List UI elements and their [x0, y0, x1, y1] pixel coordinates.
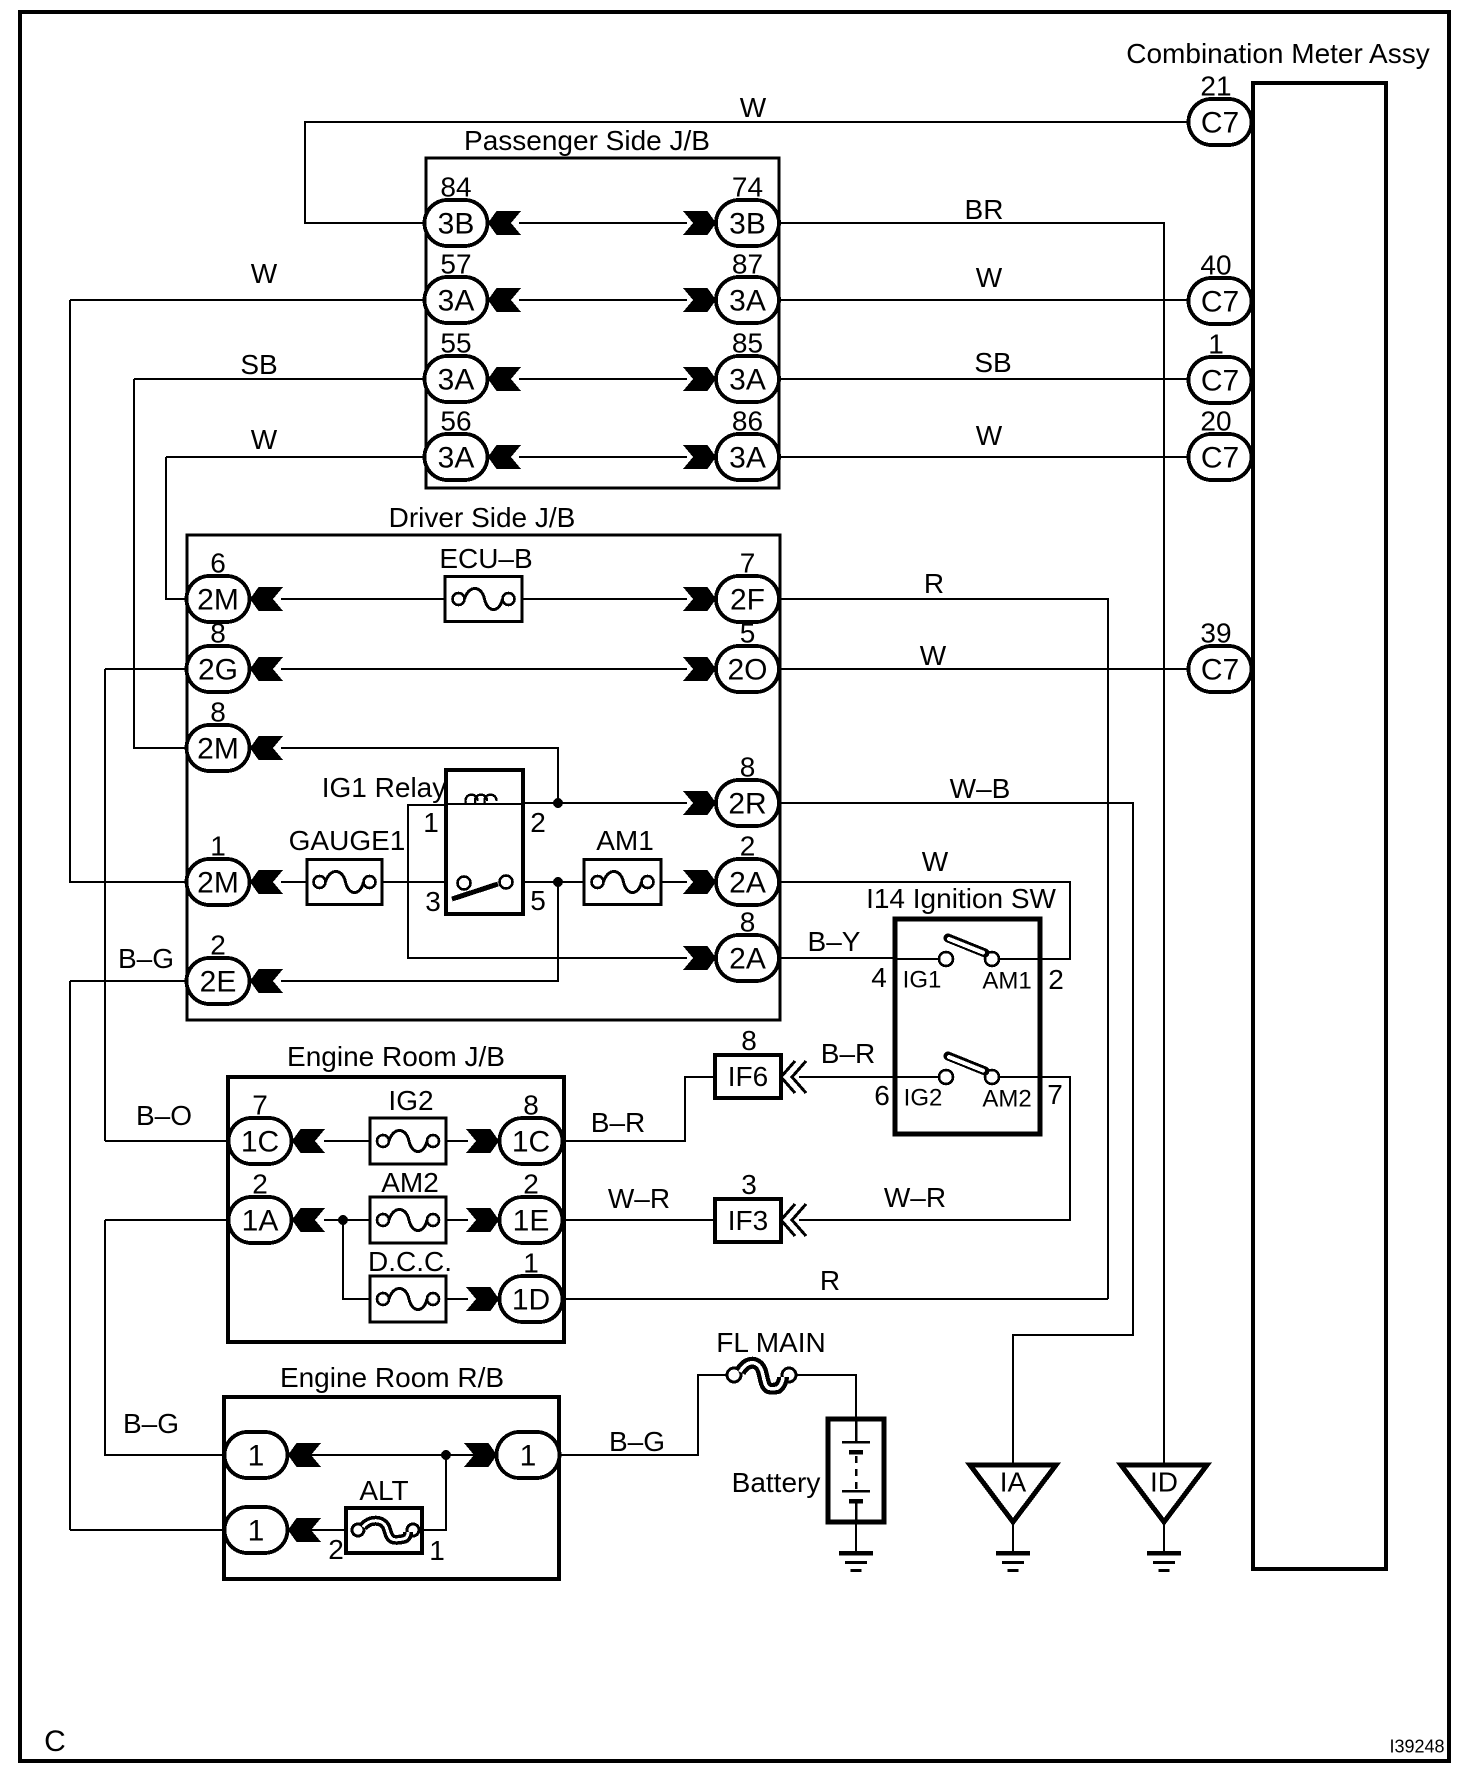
svg-text:B–R: B–R [591, 1107, 645, 1138]
fuse AM2 [370, 1197, 446, 1243]
svg-text:8: 8 [210, 697, 226, 728]
svg-text:C7: C7 [1201, 107, 1239, 140]
svg-text:87: 87 [732, 249, 763, 280]
wire D.C.C. fuse to 1D [446, 1298, 468, 1300]
svg-text:1C: 1C [512, 1126, 550, 1159]
ignition IG2 contact [939, 1070, 953, 1084]
wire B-G vertical 1A to Engine Room R/B [105, 1220, 225, 1455]
svg-text:2: 2 [1048, 964, 1064, 995]
wire ignition pin 6 to IG2 contact [895, 1076, 939, 1078]
svg-text:W–R: W–R [884, 1182, 946, 1213]
combination meter assy box [1253, 83, 1386, 1569]
svg-text:56: 56 [440, 406, 471, 437]
svg-text:7: 7 [740, 548, 756, 579]
svg-text:2: 2 [252, 1169, 268, 1200]
svg-text:IG1 Relay: IG1 Relay [322, 772, 447, 803]
wire W left segment to 3A pin 57 [70, 299, 425, 301]
wire W from C7 pin 21 to 3B pin 84 [305, 122, 1189, 223]
fuse ECU-B [445, 577, 522, 622]
svg-text:IG1: IG1 [903, 967, 942, 994]
wire B-G into 1A pin 2 [105, 1219, 230, 1221]
svg-text:C7: C7 [1201, 442, 1239, 475]
wire R from 2F to 1D [778, 599, 1108, 1299]
svg-text:W–R: W–R [608, 1183, 670, 1214]
wire B-O vertical 2G to 1C [104, 669, 106, 1141]
svg-text:C: C [44, 1725, 66, 1758]
connector C7 pin 40 [1189, 278, 1252, 324]
connector 2A pin 2 [716, 859, 779, 905]
connector 3A pin 86 [716, 434, 779, 480]
wire J/B internal row 55-85 [519, 378, 687, 380]
arrow into 2G pin 8 [250, 657, 283, 681]
svg-text:AM1: AM1 [982, 968, 1031, 995]
fuse GAUGE1 [307, 860, 382, 905]
svg-text:1D: 1D [512, 1284, 550, 1317]
wire W from 3A pin 86 to C7 pin 20 [778, 456, 1189, 458]
connector 1 lower [225, 1507, 288, 1553]
svg-text:20: 20 [1200, 406, 1231, 437]
svg-text:86: 86 [732, 406, 763, 437]
wire 2E to relay pin 5 node [281, 882, 558, 981]
wire 2M pin 8 to IG1 relay pin 2 node [281, 748, 558, 803]
wire J/B internal row 84-74 [519, 222, 687, 224]
arrow into 2R pin 8 [683, 791, 716, 815]
svg-text:R: R [924, 568, 944, 599]
svg-text:7: 7 [1047, 1079, 1063, 1110]
wire AM1 contact to ignition pin 2 [999, 958, 1040, 960]
svg-text:1: 1 [1208, 329, 1224, 360]
arrow into 2M pin 1 [250, 870, 283, 894]
relay IG1 contact 5 [500, 876, 513, 889]
ignition IG1 contact [939, 952, 953, 966]
svg-text:3: 3 [425, 886, 441, 917]
wire relay pin 5 to AM1 fuse [522, 881, 584, 883]
wire B-G vertical 2E to lower connector 1 [69, 981, 71, 1530]
arrow into 3B pin 84 [488, 211, 521, 235]
svg-text:1: 1 [520, 1440, 537, 1473]
svg-text:W: W [922, 846, 949, 877]
wire AM2 contact to ignition pin 7 [999, 1076, 1040, 1078]
connector 3A pin 87 [716, 277, 779, 323]
wire B-O into 1C pin 7 [105, 1140, 230, 1142]
wire B-G stub into 2E [70, 980, 187, 982]
svg-text:2: 2 [328, 1534, 344, 1565]
wire 1A to AM2 fuse [324, 1219, 370, 1221]
connector 3B pin 84 [425, 200, 488, 246]
wire W from 3A pin 87 to C7 pin 40 [778, 299, 1189, 301]
I14 Ignition SW box [895, 919, 1040, 1134]
svg-text:Combination Meter Assy: Combination Meter Assy [1126, 38, 1429, 69]
wire ECU-B fuse to 2F [522, 598, 687, 600]
connector IF3 chevrons [781, 1204, 806, 1236]
svg-text:1: 1 [523, 1248, 539, 1279]
connector 2R pin 8 [716, 780, 779, 826]
svg-text:1E: 1E [513, 1205, 550, 1238]
svg-text:3A: 3A [729, 364, 766, 397]
svg-text:2: 2 [530, 807, 546, 838]
svg-text:1: 1 [210, 831, 226, 862]
arrow into 2E pin 2 [250, 969, 283, 993]
svg-text:7: 7 [252, 1090, 268, 1121]
svg-text:6: 6 [874, 1080, 890, 1111]
svg-text:B–O: B–O [136, 1100, 192, 1131]
relay IG1 box [446, 770, 523, 914]
relay IG1 coil [446, 795, 522, 804]
svg-text:3B: 3B [438, 208, 475, 241]
ignition AM1 contact [985, 952, 999, 966]
svg-text:Driver Side J/B: Driver Side J/B [389, 502, 576, 533]
wire 2M6 to ECU-B fuse [281, 598, 445, 600]
wire AM2 fuse to 1E [446, 1219, 468, 1221]
wire 2G to 2O internal [281, 668, 687, 670]
relay IG1 contact 3 [458, 877, 471, 890]
svg-text:C7: C7 [1201, 365, 1239, 398]
connector 1 upper [225, 1432, 288, 1478]
arrow into 3A pin 86 [683, 445, 716, 469]
svg-text:W: W [740, 92, 767, 123]
wire W left segment to 3A pin 56 [166, 456, 425, 458]
svg-text:55: 55 [440, 328, 471, 359]
svg-text:8: 8 [740, 752, 756, 783]
svg-text:B–G: B–G [123, 1408, 179, 1439]
ignition IG2-AM2 lever [948, 1056, 985, 1071]
arrow into 2A pin 8 [683, 946, 716, 970]
wire W down to 2M pin 6 [166, 457, 187, 599]
svg-text:ECU–B: ECU–B [439, 543, 532, 574]
svg-text:B–Y: B–Y [808, 926, 861, 957]
svg-text:B–G: B–G [118, 943, 174, 974]
connector 2G pin 8 [187, 646, 250, 692]
wire IA to ground [1012, 1522, 1014, 1551]
arrow into 3A pin 85 [683, 367, 716, 391]
wire IG2 fuse to 1C [446, 1140, 468, 1142]
svg-text:2F: 2F [730, 584, 765, 617]
svg-text:W: W [976, 420, 1003, 451]
arrow into 3A pin 57 [488, 288, 521, 312]
svg-text:1: 1 [423, 807, 439, 838]
wire R from 1D to 2F riser [562, 1298, 1108, 1300]
connector 1D pin 1 [500, 1276, 563, 1322]
svg-text:FL MAIN: FL MAIN [716, 1327, 825, 1358]
wire FL MAIN to battery positive [796, 1375, 856, 1420]
svg-text:85: 85 [732, 328, 763, 359]
wire B-R from 1C pin 8 to IF6 [562, 1077, 715, 1141]
svg-text:IG2: IG2 [388, 1085, 433, 1116]
svg-text:AM2: AM2 [381, 1167, 439, 1198]
svg-text:IA: IA [1000, 1467, 1027, 1498]
connector 3A pin 55 [425, 356, 488, 402]
svg-text:8: 8 [740, 907, 756, 938]
connector 3A pin 57 [425, 277, 488, 323]
svg-text:3: 3 [741, 1169, 757, 1200]
Driver Side J/B box [187, 535, 780, 1020]
battery [828, 1419, 884, 1522]
svg-text:B–G: B–G [609, 1426, 665, 1457]
arrow into 1C pin 8 [466, 1129, 499, 1153]
connector 1C pin 7 [229, 1118, 292, 1164]
svg-text:5: 5 [740, 618, 756, 649]
arrow into 3A pin 87 [683, 288, 716, 312]
svg-text:2A: 2A [729, 867, 766, 900]
svg-text:Engine Room J/B: Engine Room J/B [287, 1041, 505, 1072]
svg-text:D.C.C.: D.C.C. [368, 1246, 452, 1277]
fuse D.C.C. [370, 1276, 446, 1322]
junction relay pin 5 node [553, 877, 563, 887]
connector 1A pin 2 [229, 1197, 292, 1243]
wire AM1 fuse to 2A [661, 881, 687, 883]
wire battery negative to ground [855, 1522, 857, 1551]
wire B-G into lower connector 1 [70, 1529, 225, 1531]
wire 2M1 to GAUGE1 [281, 881, 307, 883]
wire B-R from IF6 to ignition IG2 pin 6 [799, 1076, 895, 1078]
svg-text:2O: 2O [727, 654, 767, 687]
fusible link ALT box [346, 1508, 422, 1553]
svg-text:C7: C7 [1201, 286, 1239, 319]
connector 2F pin 7 [716, 576, 779, 622]
svg-text:Passenger Side J/B: Passenger Side J/B [464, 125, 710, 156]
wire 1C to IG2 fuse [324, 1140, 370, 1142]
svg-text:GAUGE1: GAUGE1 [289, 825, 406, 856]
wire BR from 3B pin 74 down to ID ground [778, 223, 1164, 1465]
junction AM2/DCC node [338, 1215, 348, 1225]
svg-text:21: 21 [1200, 71, 1231, 102]
junction ALT node [441, 1450, 451, 1460]
wire IG1 relay pin 1 to 2A pin 8 [408, 805, 687, 958]
svg-text:84: 84 [440, 172, 471, 203]
svg-text:W: W [251, 258, 278, 289]
svg-text:74: 74 [732, 172, 763, 203]
relay IG1 switch blade [452, 884, 498, 899]
svg-text:2G: 2G [198, 654, 238, 687]
svg-text:W: W [251, 424, 278, 455]
connector 2E pin 2 [187, 958, 250, 1004]
connector 1C pin 8 [500, 1118, 563, 1164]
junction relay pin 2 node [553, 798, 563, 808]
connector 3B pin 74 [716, 200, 779, 246]
connector C7 pin 1 [1189, 357, 1252, 403]
connector IF6 chevrons [781, 1061, 806, 1093]
arrow into 2F pin 7 [683, 587, 716, 611]
wire W from 2O to C7 pin 39 [778, 668, 1189, 670]
svg-text:B–R: B–R [821, 1038, 875, 1069]
wire IG1 relay pin 2 to 2R [522, 802, 687, 804]
wire B-Y from 2A pin 8 to ignition IG1 pin 4 [778, 957, 895, 959]
svg-text:3A: 3A [729, 442, 766, 475]
fusible link ALT [352, 1521, 419, 1540]
Engine Room J/B box [228, 1077, 564, 1342]
arrow into 1E pin 2 [466, 1208, 499, 1232]
arrow into 3B pin 74 [683, 211, 716, 235]
arrow into left connector 1 [288, 1443, 321, 1467]
svg-text:3A: 3A [729, 285, 766, 318]
connector 2O pin 5 [716, 646, 779, 692]
svg-text:Battery: Battery [732, 1467, 821, 1498]
ignition AM2 contact [985, 1070, 999, 1084]
svg-text:1C: 1C [241, 1126, 279, 1159]
arrow into 1D pin 1 [466, 1287, 499, 1311]
arrow into 2A pin 2 [683, 870, 716, 894]
wire J/B internal row 56-86 [519, 456, 687, 458]
ground point ID [1121, 1465, 1207, 1522]
ignition IG1-AM1 lever [948, 938, 985, 953]
wire W from 2A pin 2 to ignition AM1 pin 2 [778, 882, 1070, 959]
arrow into 1A pin 2 [292, 1208, 325, 1232]
svg-text:ALT: ALT [359, 1475, 408, 1506]
arrow into 3A pin 56 [488, 445, 521, 469]
svg-text:4: 4 [871, 962, 887, 993]
wire J/B internal row 57-87 [519, 299, 687, 301]
ground point IA [970, 1465, 1056, 1522]
arrow into 3A pin 55 [488, 367, 521, 391]
svg-text:2: 2 [740, 831, 756, 862]
svg-text:1: 1 [248, 1515, 265, 1548]
svg-text:8: 8 [523, 1090, 539, 1121]
svg-text:2: 2 [523, 1169, 539, 1200]
svg-text:C7: C7 [1201, 654, 1239, 687]
svg-text:ID: ID [1150, 1467, 1178, 1498]
svg-text:SB: SB [240, 349, 277, 380]
svg-text:1A: 1A [242, 1205, 279, 1238]
wire W-B from 2R to IA ground [778, 803, 1133, 1465]
svg-text:Engine Room R/B: Engine Room R/B [280, 1362, 504, 1393]
ground below battery [839, 1551, 873, 1572]
connector C7 pin 39 [1189, 646, 1252, 692]
svg-text:3A: 3A [438, 285, 475, 318]
svg-text:1: 1 [429, 1535, 445, 1566]
Engine Room R/B box [224, 1397, 559, 1579]
arrow into lower connector 1 [288, 1518, 321, 1542]
svg-text:57: 57 [440, 249, 471, 280]
wire ALT pin 1 to junction [419, 1455, 446, 1530]
svg-text:2M: 2M [197, 733, 239, 766]
svg-text:3A: 3A [438, 442, 475, 475]
svg-text:2M: 2M [197, 867, 239, 900]
svg-text:2R: 2R [728, 788, 766, 821]
connector 2M pin 8 [187, 725, 250, 771]
connector C7 pin 21 [1189, 99, 1252, 145]
arrow into 2M pin 6 [250, 587, 283, 611]
svg-text:R: R [820, 1265, 840, 1296]
connector IF6 [715, 1055, 781, 1098]
wire junction down to D.C.C. fuse [343, 1220, 370, 1299]
svg-text:2M: 2M [197, 584, 239, 617]
connector 1E pin 2 [500, 1197, 563, 1243]
wire ID to ground [1163, 1522, 1165, 1551]
svg-text:8: 8 [210, 618, 226, 649]
Passenger Side J/B box [426, 158, 779, 488]
svg-text:2A: 2A [729, 943, 766, 976]
svg-text:I14 Ignition SW: I14 Ignition SW [866, 883, 1056, 914]
svg-text:8: 8 [741, 1025, 757, 1056]
arrow into 2M pin 8 [250, 736, 283, 760]
connector 2A pin 8 [716, 935, 779, 981]
svg-text:IF3: IF3 [728, 1205, 768, 1236]
svg-text:AM2: AM2 [982, 1086, 1031, 1113]
wire SB down to 2M pin 8 [134, 379, 187, 748]
connector 2M pin 6 [187, 576, 250, 622]
svg-text:6: 6 [210, 548, 226, 579]
svg-text:3A: 3A [438, 364, 475, 397]
wire W-R from IF3 to ignition AM2 pin 7 [799, 1077, 1070, 1220]
svg-text:40: 40 [1200, 250, 1231, 281]
wire W-R from 1E to IF3 [562, 1219, 715, 1221]
svg-text:AM1: AM1 [596, 825, 654, 856]
fuse IG2 [370, 1118, 446, 1164]
svg-text:W: W [920, 640, 947, 671]
arrow into right connector 1 [464, 1443, 497, 1467]
fuse AM1 [584, 860, 661, 905]
svg-text:2: 2 [210, 930, 226, 961]
connector 1 right [497, 1432, 560, 1478]
svg-text:1: 1 [248, 1440, 265, 1473]
svg-text:BR: BR [965, 194, 1004, 225]
connector 3A pin 85 [716, 356, 779, 402]
wire SB from 3A pin 85 to C7 pin 1 [778, 378, 1189, 380]
svg-text:2E: 2E [200, 966, 237, 999]
wire lower 1 to ALT link [287, 1529, 346, 1531]
svg-text:3B: 3B [729, 208, 766, 241]
svg-text:SB: SB [974, 347, 1011, 378]
wire B-O stub into 2G [105, 668, 187, 670]
ground below IA [996, 1551, 1030, 1572]
wire internal row 1-1 [287, 1454, 497, 1456]
svg-text:W: W [976, 262, 1003, 293]
wire GAUGE1 to relay pin 3 [382, 881, 446, 883]
arrow into 1C pin 7 [292, 1129, 325, 1153]
wire SB left segment to 3A pin 55 [134, 378, 425, 380]
svg-text:5: 5 [530, 885, 546, 916]
connector 3A pin 56 [425, 434, 488, 480]
connector C7 pin 20 [1189, 434, 1252, 480]
arrow into 2O pin 5 [683, 657, 716, 681]
wire B-G from right 1 to FL MAIN [559, 1375, 727, 1455]
wire W down to 2M pin 1 [70, 300, 187, 882]
fusible link FL MAIN [727, 1363, 796, 1389]
svg-text:IF6: IF6 [728, 1061, 768, 1092]
connector IF3 [715, 1199, 781, 1242]
svg-text:IG2: IG2 [904, 1085, 943, 1112]
svg-text:W–B: W–B [950, 773, 1011, 804]
connector 2M pin 1 [187, 859, 250, 905]
svg-text:39: 39 [1200, 618, 1231, 649]
wire ignition pin 4 to IG1 contact [895, 958, 939, 960]
svg-text:I39248: I39248 [1389, 1736, 1444, 1756]
ground below ID [1147, 1551, 1181, 1572]
